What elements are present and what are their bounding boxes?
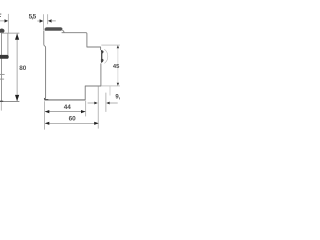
- svg-text:45: 45: [113, 64, 120, 70]
- 44 dim: left extension line (shared with 60 dim): [44, 101, 46, 129]
- DIN rail: mounting clearance arc: [104, 49, 108, 63]
- svg-text:60: 60: [69, 115, 77, 122]
- front view: left edge lower stub: [0, 101, 2, 110]
- 9,5 dim: right arrow: [106, 102, 110, 105]
- svg-text:9,5: 9,5: [115, 94, 120, 100]
- 5,5 dim: right arrow: [48, 19, 52, 22]
- 9,5 dim: left arrow: [94, 102, 98, 105]
- DIN rail clip edge below step: [109, 86, 111, 95]
- side view: bottom edge emphasis: [45, 99, 85, 101]
- 5,5 dim: left arrow: [40, 19, 44, 22]
- side view: bottom-front corner detail: [44, 98, 48, 100]
- 9,5 dim: right tail: [109, 102, 117, 104]
- 60 dim: left arrow: [45, 122, 50, 125]
- right dim: upper extension line: [101, 44, 120, 46]
- 45 dim: bottom arrow: [117, 83, 119, 86]
- DIN rail: top flange hook (dark): [101, 50, 104, 54]
- front view: bottom-left corner emphasis: [0, 100, 3, 102]
- 9,5 dim: right extension line: [105, 93, 107, 112]
- 44 dim: line: [45, 111, 85, 113]
- svg-text:5,5: 5,5: [29, 13, 37, 20]
- front view: left edge: [1, 33, 3, 101]
- DIN rail: bottom flange hook (dark): [101, 59, 104, 63]
- 5,5 dim: left tail: [37, 20, 40, 22]
- 9,5 dim: left extension line (also 60 dim right ext): [97, 86, 99, 128]
- 60 dim: line: [45, 122, 99, 124]
- svg-text:80: 80: [19, 65, 27, 72]
- cropped top dimension: extension line: [7, 14, 9, 33]
- svg-text:44: 44: [64, 104, 72, 111]
- front view: right edge: [7, 33, 9, 55]
- 45 dim: line: [117, 45, 119, 85]
- 60 dim: right arrow: [94, 122, 99, 125]
- front view: top knob blob: [0, 29, 5, 33]
- side view: step from toggle bar down to top edge: [62, 30, 64, 32]
- 5,5 dim: right tail: [51, 20, 56, 22]
- front view: marking tick 1: [0, 73, 5, 75]
- cropped top dimension: tail line: [0, 20, 5, 22]
- side view: toggle bar on raised front (dark): [45, 27, 63, 30]
- cropped dimension text remnant top-left: [0, 14, 1, 16]
- 44 dim: right arrow: [81, 110, 86, 113]
- front view: top edge + extension line to 80 dim: [1, 32, 19, 34]
- 44 dim: left arrow: [45, 110, 50, 113]
- front view: marking tick 2: [0, 78, 4, 80]
- 5,5 dim: left extension line: [43, 14, 45, 30]
- DIN rail: web: [101, 53, 103, 59]
- 80 dim: top arrow: [15, 34, 19, 40]
- 9,5 dim: left tail: [88, 102, 95, 104]
- right dim: lower extension line: [101, 85, 120, 87]
- 44 dim: right extension line: [85, 101, 87, 117]
- 45 dim: top arrow: [117, 45, 119, 48]
- 80 dim: bottom arrow: [15, 95, 19, 101]
- cropped top dimension: right-pointing arrow: [5, 19, 9, 22]
- side view: main body outline: [44, 31, 101, 100]
- front view: bottom edge + extension line: [0, 100, 19, 102]
- 5,5 dim: right extension line: [47, 14, 49, 24]
- 80 dim: line: [16, 34, 18, 102]
- front view: toggle handle (dark band): [0, 55, 9, 59]
